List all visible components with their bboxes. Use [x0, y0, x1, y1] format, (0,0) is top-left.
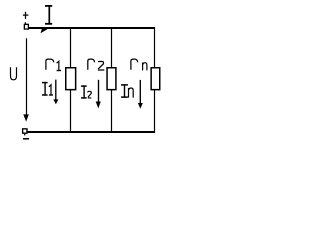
resistor r2 body — [107, 68, 116, 90]
resistor r1 body — [66, 68, 76, 90]
label In — [121, 84, 128, 98]
label rn — [131, 59, 138, 70]
wire top bus — [28, 27, 155, 29]
wire right leg upper — [154, 27, 156, 68]
voltage arrow U — [26, 38, 28, 115]
minus sign — [23, 138, 29, 140]
current arrow In — [139, 80, 141, 104]
wire branch 2 lower — [111, 90, 113, 132]
wire branch 2 upper — [111, 28, 113, 68]
current arrow I2 — [98, 80, 100, 102]
wire right leg lower — [154, 90, 156, 133]
label subscript 2 of r2 — [98, 62, 104, 71]
label U — [11, 67, 17, 80]
label r2 — [88, 59, 95, 70]
resistor rn body — [151, 68, 160, 90]
current arrow I1 — [55, 80, 57, 100]
terminal top-left — [24, 24, 29, 30]
wire bottom bus — [27, 131, 155, 133]
label r1 — [46, 59, 54, 70]
label subscript 1 of r1 — [57, 61, 62, 70]
wire branch 1 lower — [70, 90, 72, 132]
label subscript n of rn — [143, 63, 147, 71]
terminal bottom-left — [22, 128, 28, 134]
wire branch 1 upper — [70, 28, 72, 68]
label I2 — [81, 85, 87, 98]
arrowhead current I on top wire — [41, 28, 48, 34]
label I1 — [42, 82, 48, 96]
label I (total current) — [45, 5, 52, 25]
plus sign — [23, 14, 29, 16]
